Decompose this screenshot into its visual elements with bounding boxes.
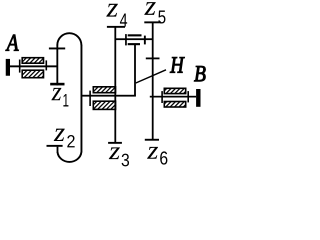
bearing A left tick — [19, 60, 21, 73]
label B — [194, 66, 205, 81]
carrier H arm — [134, 45, 136, 96]
gear z5 bottom tick — [146, 58, 160, 60]
bearing A top block — [22, 58, 43, 64]
middle support top block — [93, 87, 115, 93]
leader line to H — [136, 70, 166, 83]
label z5 — [144, 2, 156, 15]
gear z2 stub — [57, 147, 59, 153]
bearing B right tick — [187, 91, 189, 102]
label z2 — [54, 129, 65, 141]
internal-mesh top arc — [57, 33, 81, 45]
shaft A end cap — [6, 59, 10, 76]
bearing B left tick — [161, 91, 163, 103]
ring gear line — [81, 45, 83, 153]
gear z4 top tick — [107, 26, 125, 28]
shaft B end cap — [196, 89, 200, 107]
carrier link shaft — [81, 95, 135, 97]
label A — [6, 35, 19, 51]
gear z2 tick — [47, 145, 63, 147]
bearing B bottom block — [164, 102, 185, 108]
gear z5 top tick — [144, 21, 161, 23]
planet bottom bar — [128, 43, 140, 45]
gear column z4/z3 — [114, 27, 116, 143]
label z4 — [106, 4, 118, 17]
bearing A right tick — [46, 60, 48, 70]
gear z1 line — [56, 45, 58, 86]
label z3 — [109, 147, 120, 159]
label z1 — [51, 88, 61, 100]
gear z3 bottom tick — [108, 142, 122, 144]
middle support bottom block — [93, 101, 115, 109]
shaft B — [150, 96, 196, 98]
middle support left tick — [89, 91, 91, 106]
label H — [170, 57, 185, 72]
shaft A — [10, 65, 58, 67]
bearing A bottom block — [22, 70, 43, 78]
gear z1 bottom tick — [50, 83, 64, 86]
planet axis line — [115, 38, 152, 40]
planet top bar — [128, 34, 142, 36]
internal-mesh bottom arc — [58, 152, 82, 162]
label z6 — [147, 147, 158, 159]
planet left tick — [125, 34, 127, 45]
gear column z5/z6 — [152, 22, 154, 140]
bearing B top block — [164, 88, 185, 93]
gear z1 top tick — [49, 48, 65, 50]
gear z6 bottom tick — [145, 139, 159, 141]
planet right tick — [144, 36, 146, 45]
